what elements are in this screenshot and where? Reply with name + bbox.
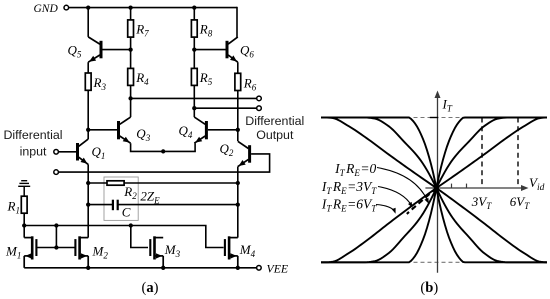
input terminal 1: [54, 150, 59, 155]
resistor R7: [128, 20, 134, 37]
svg-text:R3: R3: [93, 75, 107, 92]
svg-text:R6: R6: [243, 76, 257, 93]
resistor R5: [191, 68, 197, 85]
svg-text:Output: Output: [256, 128, 294, 142]
x tick 1: [451, 184, 453, 188]
node top rail x130: [128, 5, 132, 9]
svg-text:Q3: Q3: [136, 126, 150, 143]
curve ITRE=0 rising: [321, 118, 547, 263]
wire gate bias line: [24, 226, 223, 248]
node C left: [86, 202, 90, 206]
wire Q5 collector: [87, 8, 89, 37]
wire R6 bottom to node F: [237, 91, 239, 142]
arrow to curve 0: [377, 168, 428, 201]
wire R2 line right: [124, 182, 238, 184]
origin node: [434, 185, 439, 190]
node D (R8/R5/Q6 base): [192, 47, 196, 51]
node R1/bias line/M1 drain: [22, 223, 26, 227]
dashed bottom saturation line: [414, 261, 460, 263]
node rail M4 source: [236, 266, 240, 270]
node top rail x194: [192, 5, 196, 9]
curve ITRE=6VT falling: [321, 118, 547, 263]
wire Q4 base: [208, 129, 238, 131]
node bias/M3 gate: [129, 223, 133, 227]
input terminal 2: [54, 170, 59, 175]
wire Q2 base loop: [58, 154, 269, 172]
transistor Q3: [117, 121, 120, 139]
resistor R4: [128, 68, 134, 85]
node G (Q3/Q4 emitters to M3 drain): [161, 149, 165, 153]
wire M1 M2 gate line: [37, 247, 74, 249]
node F (R6/Q4 base/Q2 collector): [236, 128, 240, 132]
wire C line right: [118, 204, 238, 206]
node bias/M1M2 gates: [54, 223, 58, 227]
svg-text:R7: R7: [135, 22, 149, 39]
arrow to curve 6VT: [376, 205, 395, 212]
x axis: [425, 187, 523, 189]
resistor R3: [85, 73, 91, 90]
node B (R7/R4/Q5 base): [128, 47, 132, 51]
node R2 right: [236, 181, 240, 185]
dashed guide 3VT: [481, 118, 483, 189]
wire R3 bottom to node A: [87, 90, 89, 138]
curve ITRE=0 falling: [321, 118, 547, 263]
svg-text:M3: M3: [164, 242, 181, 259]
resistor R8: [191, 20, 197, 37]
svg-text:C: C: [122, 205, 131, 220]
wire Q6 emitter to R6: [237, 62, 239, 73]
svg-text:Q6: Q6: [240, 43, 254, 60]
wire input1 to Q1 base: [58, 151, 76, 153]
curve ITRE=6VT rising: [321, 118, 547, 263]
node gate line tie: [54, 245, 58, 249]
wire R8 to R5: [193, 37, 195, 68]
svg-text:Differential: Differential: [3, 128, 62, 142]
svg-text:R8: R8: [199, 22, 213, 39]
y axis arrow: [435, 91, 441, 99]
wire Q2 emitter column: [237, 167, 239, 238]
wire Q3 emitter corner: [131, 143, 196, 151]
box 2ZE: [104, 177, 138, 220]
svg-text:R1: R1: [7, 199, 20, 216]
x axis arrow: [521, 185, 529, 191]
svg-text:M1: M1: [5, 244, 21, 261]
wire Q6 collector: [236, 7, 238, 37]
svg-text:Q5: Q5: [68, 43, 82, 60]
wire top rail: [69, 7, 237, 9]
svg-text:IT: IT: [442, 97, 453, 114]
wire Q1 collector diag join: [87, 138, 89, 141]
output terminal 2: [257, 106, 262, 111]
VEE terminal: [257, 266, 262, 271]
node A (Q1 collector / Q3 base): [86, 128, 90, 132]
svg-text:Q4: Q4: [179, 123, 193, 140]
svg-text:M4: M4: [239, 242, 256, 259]
wire rail to R8: [193, 8, 195, 20]
svg-text:GND: GND: [34, 3, 59, 15]
resistor R2: [107, 181, 124, 185]
wire Q5 base: [103, 49, 131, 51]
output terminal 1: [257, 96, 262, 101]
dashed top saturation line: [414, 117, 460, 119]
transistor M1: [31, 236, 34, 259]
svg-text:ITRE=0: ITRE=0: [334, 161, 376, 178]
dashed guide 6VT: [517, 118, 519, 189]
node rail M3 source: [161, 266, 165, 270]
transistor M3: [153, 236, 156, 259]
wire Q3 base: [88, 129, 117, 131]
dashed ray at origin: [407, 188, 437, 214]
svg-text:2ZE: 2ZE: [140, 189, 160, 206]
arrow to curve 3VT: [378, 187, 412, 206]
wire R5 bottom: [193, 85, 195, 117]
resistor R1: [21, 196, 27, 213]
wire output line 1: [131, 97, 257, 99]
svg-text:ITRE=3VT: ITRE=3VT: [321, 179, 377, 196]
transistor M2: [78, 236, 81, 259]
node C (R4/Q3 collector/output1): [128, 96, 132, 100]
svg-text:ITRE=6VT: ITRE=6VT: [321, 196, 377, 213]
node rail M2 source: [86, 266, 90, 270]
transistor Q4: [205, 121, 208, 139]
svg-text:Q1: Q1: [92, 144, 106, 161]
svg-text:(a): (a): [142, 280, 159, 296]
wire Q1 emitter column: [87, 164, 89, 237]
svg-text:6VT: 6VT: [510, 194, 530, 211]
transistor Q5: [100, 41, 103, 59]
wire Q6 base: [194, 49, 225, 51]
wire C line left: [88, 204, 113, 206]
svg-text:R2: R2: [123, 184, 137, 201]
curve ITRE=3VT rising: [321, 118, 547, 263]
ground (signal ground above R1): [21, 180, 27, 182]
wire output line 2: [194, 107, 256, 109]
svg-text:Vid: Vid: [529, 175, 545, 193]
transistor Q6: [226, 41, 229, 59]
svg-text:VEE: VEE: [267, 261, 289, 275]
GND terminal: [64, 5, 69, 10]
svg-text:input: input: [20, 145, 47, 159]
wire R1 bottom: [23, 213, 25, 237]
svg-text:3VT: 3VT: [471, 194, 492, 211]
wire R7 to R4: [130, 37, 132, 68]
wire M1-M2 gate tie: [55, 226, 57, 248]
svg-text:Differential: Differential: [245, 114, 304, 128]
wire R2 line left: [88, 182, 107, 184]
node R2 left: [86, 181, 90, 185]
y axis: [437, 96, 439, 273]
svg-text:(b): (b): [420, 280, 438, 296]
wire rail to R7: [130, 8, 132, 20]
node top rail x88: [86, 5, 90, 9]
svg-text:Q2: Q2: [220, 141, 234, 158]
transistor Q1: [76, 143, 79, 161]
svg-text:M2: M2: [92, 244, 109, 261]
wire Q5 emitter to R3: [87, 62, 89, 73]
svg-text:R5: R5: [199, 70, 213, 87]
capacitor C: [112, 200, 114, 211]
node C right: [236, 202, 240, 206]
transistor Q2: [248, 145, 251, 163]
svg-text:R4: R4: [135, 70, 149, 87]
wire M3 gate feed: [131, 226, 148, 248]
curve ITRE=3VT falling: [321, 118, 547, 263]
x tick 2: [466, 184, 468, 188]
node E (R5/Q4 collector/output2): [192, 106, 196, 110]
wire bottom rail: [24, 267, 256, 269]
transistor M4: [228, 236, 231, 259]
wire R4 bottom: [130, 85, 132, 117]
y tick at IT: [430, 117, 438, 119]
resistor R6: [235, 73, 241, 90]
